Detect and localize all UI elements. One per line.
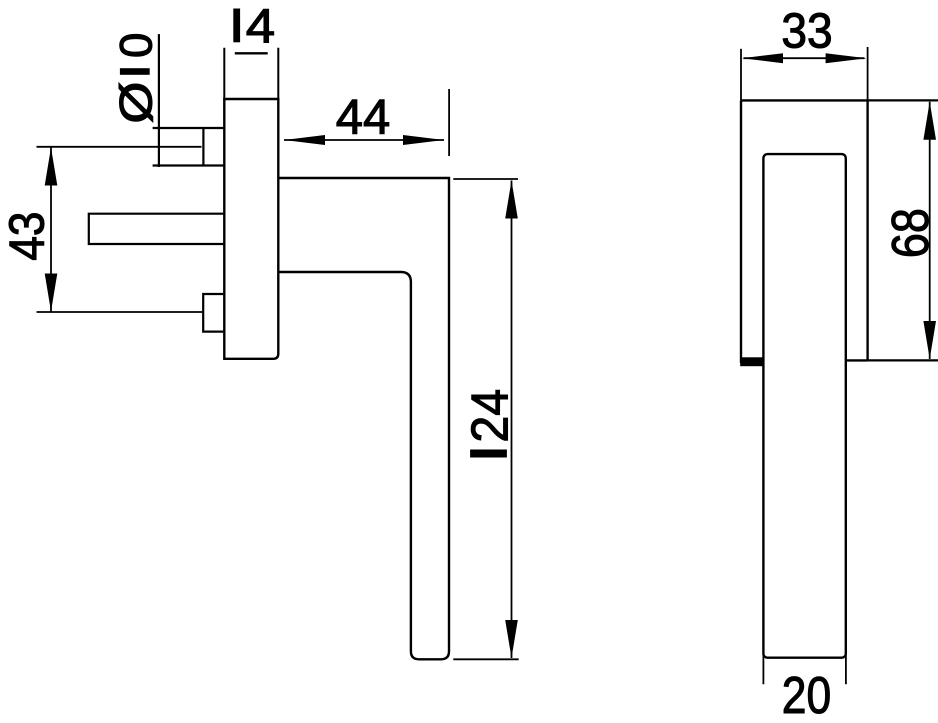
front view: rosette top edge with 68 extension: [741, 99, 868, 101]
svg-text:4: 4: [246, 0, 275, 53]
dimension Ø10: leader line: [158, 34, 160, 167]
dimension 14: dimension bar: [235, 52, 268, 54]
side view: rosette plate: [224, 99, 278, 359]
dimension 68: arrowhead down: [923, 321, 936, 359]
svg-text:24: 24: [461, 389, 519, 443]
dimension 14: extension lines: [224, 48, 278, 99]
dimension 44: extension line: [448, 89, 450, 156]
svg-text:20: 20: [782, 667, 831, 723]
side view: handle outline (arm and grip): [280, 178, 450, 659]
dimension 43: extension lines: [37, 147, 203, 312]
dimension 33: dimension line: [744, 57, 865, 59]
dimension 68: dimension line: [929, 102, 931, 359]
svg-text:Ø: Ø: [111, 81, 162, 123]
dimension 124: extension lines: [453, 179, 518, 659]
side view: top fixing screw: [153, 128, 224, 166]
svg-text:44: 44: [336, 91, 391, 145]
dimension 68: arrowhead up: [923, 102, 936, 140]
dimension 124: arrowhead down: [505, 620, 518, 658]
front view: rosette bottom edge right segment with 68 extension: [846, 359, 868, 361]
dimension 43: arrowhead up: [45, 148, 58, 186]
side view: square spindle: [89, 214, 224, 244]
dimension 44: dimension line: [284, 139, 444, 141]
dimension 20: extension lines: [763, 655, 846, 684]
dimension 124: arrowhead up: [505, 181, 518, 219]
dimension 44: arrowhead right: [403, 135, 444, 145]
front view: handle grip outline: [763, 154, 845, 658]
side view: bottom fixing screw head: [203, 294, 223, 332]
front view: rosette bottom left thick mark: [740, 357, 764, 366]
dimension 43: dimension line: [50, 148, 52, 312]
front view: rosette left edge with extension: [740, 49, 742, 101]
dimension 14: label: [233, 9, 240, 43]
dimension 44: arrowhead left: [284, 135, 325, 145]
dimension 33: arrowhead left: [742, 53, 783, 63]
svg-text:33: 33: [781, 4, 832, 59]
svg-text:68: 68: [882, 208, 938, 258]
svg-text:43: 43: [0, 212, 54, 261]
dimension 33: arrowhead right: [826, 53, 867, 63]
dimension 43: arrowhead down: [45, 274, 58, 312]
dimension 124: dimension line: [511, 181, 513, 659]
svg-text:0: 0: [111, 33, 162, 58]
front view: rosette right edge with extension: [867, 47, 869, 100]
dimension 124: label: [470, 450, 507, 458]
